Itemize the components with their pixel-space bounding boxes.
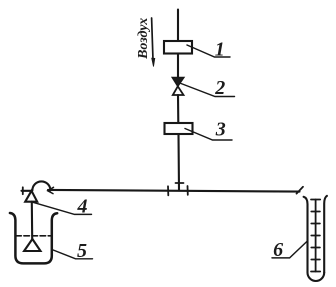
scale tick t3 <box>311 223 320 225</box>
wire: vertical segment between 1 and 2 <box>177 54 179 78</box>
junction tick on vertical pipe <box>176 182 184 184</box>
wire: air flow arrow <box>152 18 155 67</box>
wire: vertical segment between 2 and 3 <box>177 95 179 123</box>
component U1: rectangle 1 <box>164 41 192 54</box>
leader line to label 3 <box>185 129 232 141</box>
wire: main horizontal line <box>48 190 300 192</box>
svg-text:6: 6 <box>273 239 283 261</box>
scale tick t1 <box>311 199 320 201</box>
junction tick left on horizontal pipe <box>167 186 169 195</box>
leader line to label 6 <box>272 241 307 258</box>
valve 2 (bowtie) <box>172 78 184 96</box>
stub wire with end tick (left of device 4) <box>22 190 32 192</box>
scale tick t2 <box>311 211 320 213</box>
liquid level (dashed) in tank 5 <box>16 235 52 237</box>
U-tube manometer 6: left tube with flared top <box>304 197 308 273</box>
svg-text:5: 5 <box>77 240 87 262</box>
U-tube manometer 6: bottom bend <box>308 273 325 282</box>
scale tick t5 <box>311 247 320 249</box>
wire: vertical air line top segment <box>177 10 179 42</box>
wire: pipe down into tank <box>31 202 34 239</box>
leader line to label 4 <box>33 202 92 214</box>
component U3: rectangle 3 <box>165 123 193 134</box>
svg-text:1: 1 <box>215 39 225 61</box>
svg-text:4: 4 <box>77 196 88 218</box>
flow arrowhead at left end of horizontal line <box>48 187 54 193</box>
U-tube manometer 6: scale line <box>315 200 317 272</box>
nozzle triangle of device 4 <box>25 191 37 202</box>
submerged nozzle triangle in tank <box>24 239 40 251</box>
leader line to label 5 <box>52 250 93 259</box>
U-tube manometer 6: right tube with flared top <box>324 196 327 273</box>
scale tick t6 <box>311 259 320 261</box>
svg-text:Воздух: Воздух <box>136 18 151 60</box>
leader line to label 1 <box>187 45 230 57</box>
pipe loop arc of device 4 <box>32 181 50 190</box>
scale tick t4 <box>311 235 320 237</box>
svg-text:3: 3 <box>215 119 226 141</box>
scale tick t7 <box>311 271 320 273</box>
end tick at right pipe end <box>297 187 304 194</box>
leader line to label 2 <box>181 84 235 97</box>
wire: vertical segment between 3 and junction <box>177 134 180 191</box>
tank 5 (open vessel) <box>10 213 57 263</box>
svg-text:2: 2 <box>214 77 225 99</box>
junction tick right on horizontal pipe <box>187 186 189 195</box>
